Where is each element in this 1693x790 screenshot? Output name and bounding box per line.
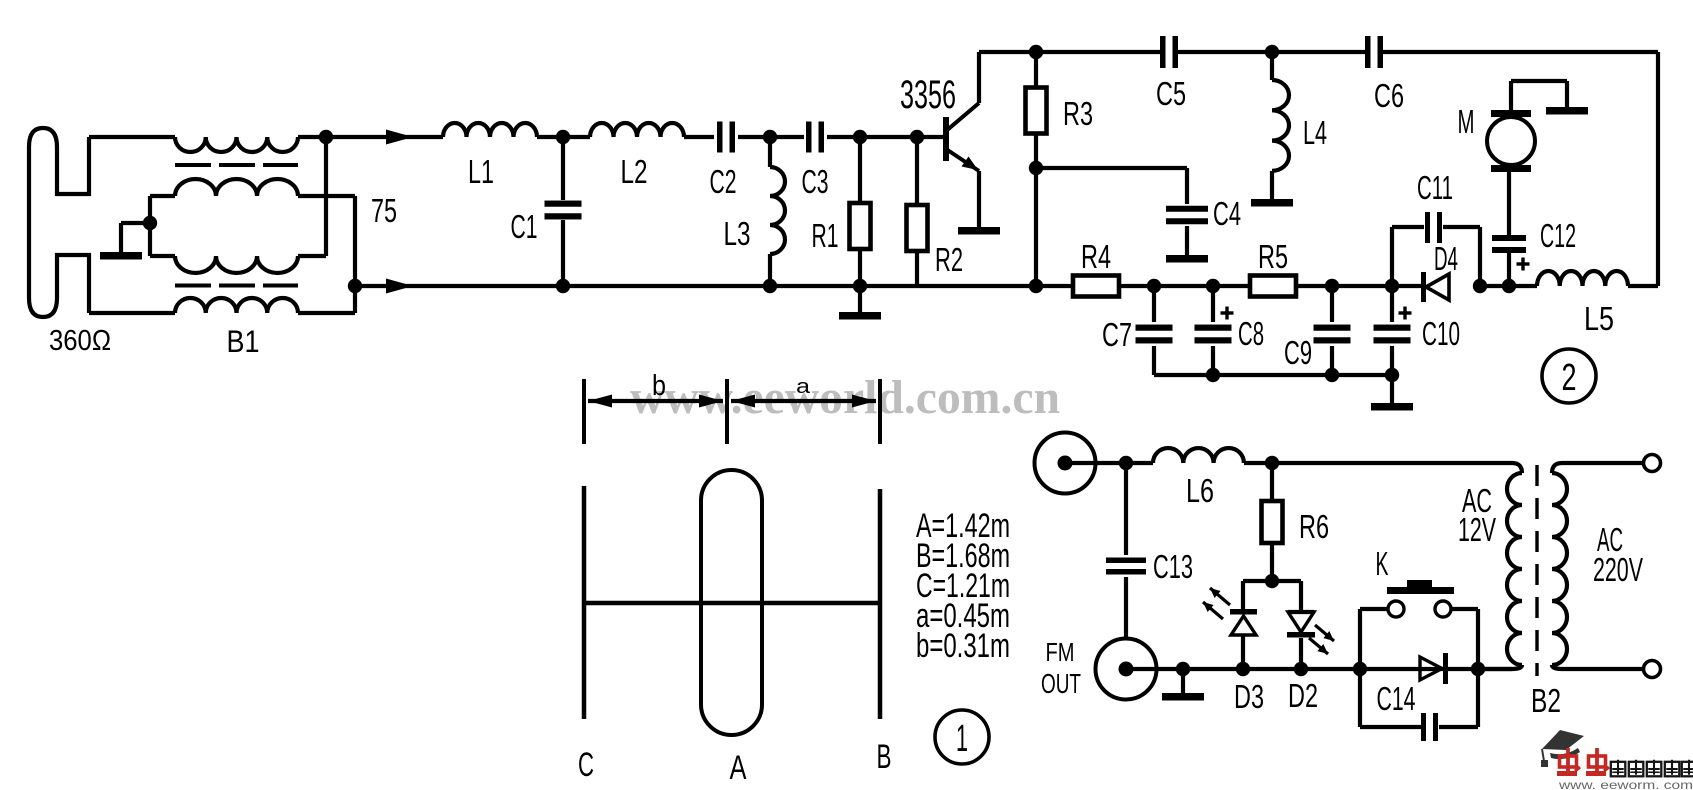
svg-text:A: A xyxy=(730,749,747,787)
svg-text:L5: L5 xyxy=(1584,300,1614,337)
svg-text:R6: R6 xyxy=(1299,508,1329,545)
svg-text:C3: C3 xyxy=(802,163,829,200)
svg-text:C2: C2 xyxy=(710,163,737,200)
svg-text:D4: D4 xyxy=(1434,240,1458,277)
svg-text:M: M xyxy=(1458,103,1475,140)
svg-text:R4: R4 xyxy=(1081,238,1111,275)
svg-text:2: 2 xyxy=(1562,356,1577,399)
svg-text:b: b xyxy=(652,370,666,402)
svg-text:R5: R5 xyxy=(1258,238,1288,275)
svg-text:C5: C5 xyxy=(1156,75,1186,112)
svg-text:C11: C11 xyxy=(1417,169,1453,206)
svg-text:C: C xyxy=(578,746,594,784)
svg-text:B1: B1 xyxy=(227,323,260,359)
svg-text:D3: D3 xyxy=(1234,678,1264,715)
svg-text:L3: L3 xyxy=(724,215,751,252)
svg-text:C12: C12 xyxy=(1540,217,1576,254)
svg-text:L1: L1 xyxy=(468,153,494,190)
svg-text:C7: C7 xyxy=(1102,316,1132,353)
svg-text:L4: L4 xyxy=(1303,114,1327,151)
svg-text:B2: B2 xyxy=(1531,682,1561,719)
svg-text:www. eeworm. com: www. eeworm. com xyxy=(1558,780,1693,790)
svg-text:C13: C13 xyxy=(1153,548,1193,585)
svg-text:FM: FM xyxy=(1046,637,1075,667)
svg-text:360Ω: 360Ω xyxy=(49,325,111,357)
svg-text:C10: C10 xyxy=(1422,315,1460,352)
svg-text:R2: R2 xyxy=(935,241,963,278)
svg-text:www.eeworld.com.cn: www.eeworld.com.cn xyxy=(630,371,1060,424)
svg-text:12V: 12V xyxy=(1458,511,1496,548)
svg-text:b=0.31m: b=0.31m xyxy=(916,627,1010,665)
svg-text:75: 75 xyxy=(371,192,397,229)
svg-text:B: B xyxy=(877,738,892,776)
svg-text:C4: C4 xyxy=(1213,195,1241,232)
svg-text:220V: 220V xyxy=(1593,551,1643,588)
svg-text:C8: C8 xyxy=(1238,315,1264,352)
svg-text:K: K xyxy=(1376,545,1389,582)
svg-text:C9: C9 xyxy=(1284,334,1312,371)
svg-text:L2: L2 xyxy=(621,153,648,190)
svg-text:C6: C6 xyxy=(1374,77,1404,114)
svg-text:C14: C14 xyxy=(1377,680,1416,717)
svg-text:C1: C1 xyxy=(511,208,538,245)
svg-text:D2: D2 xyxy=(1288,677,1318,714)
svg-text:1: 1 xyxy=(956,717,968,760)
svg-text:OUT: OUT xyxy=(1041,668,1081,699)
svg-text:L6: L6 xyxy=(1186,472,1214,509)
svg-text:a: a xyxy=(796,375,811,398)
svg-text:3356: 3356 xyxy=(900,73,956,117)
svg-text:R3: R3 xyxy=(1063,95,1093,132)
svg-text:R1: R1 xyxy=(812,217,839,254)
